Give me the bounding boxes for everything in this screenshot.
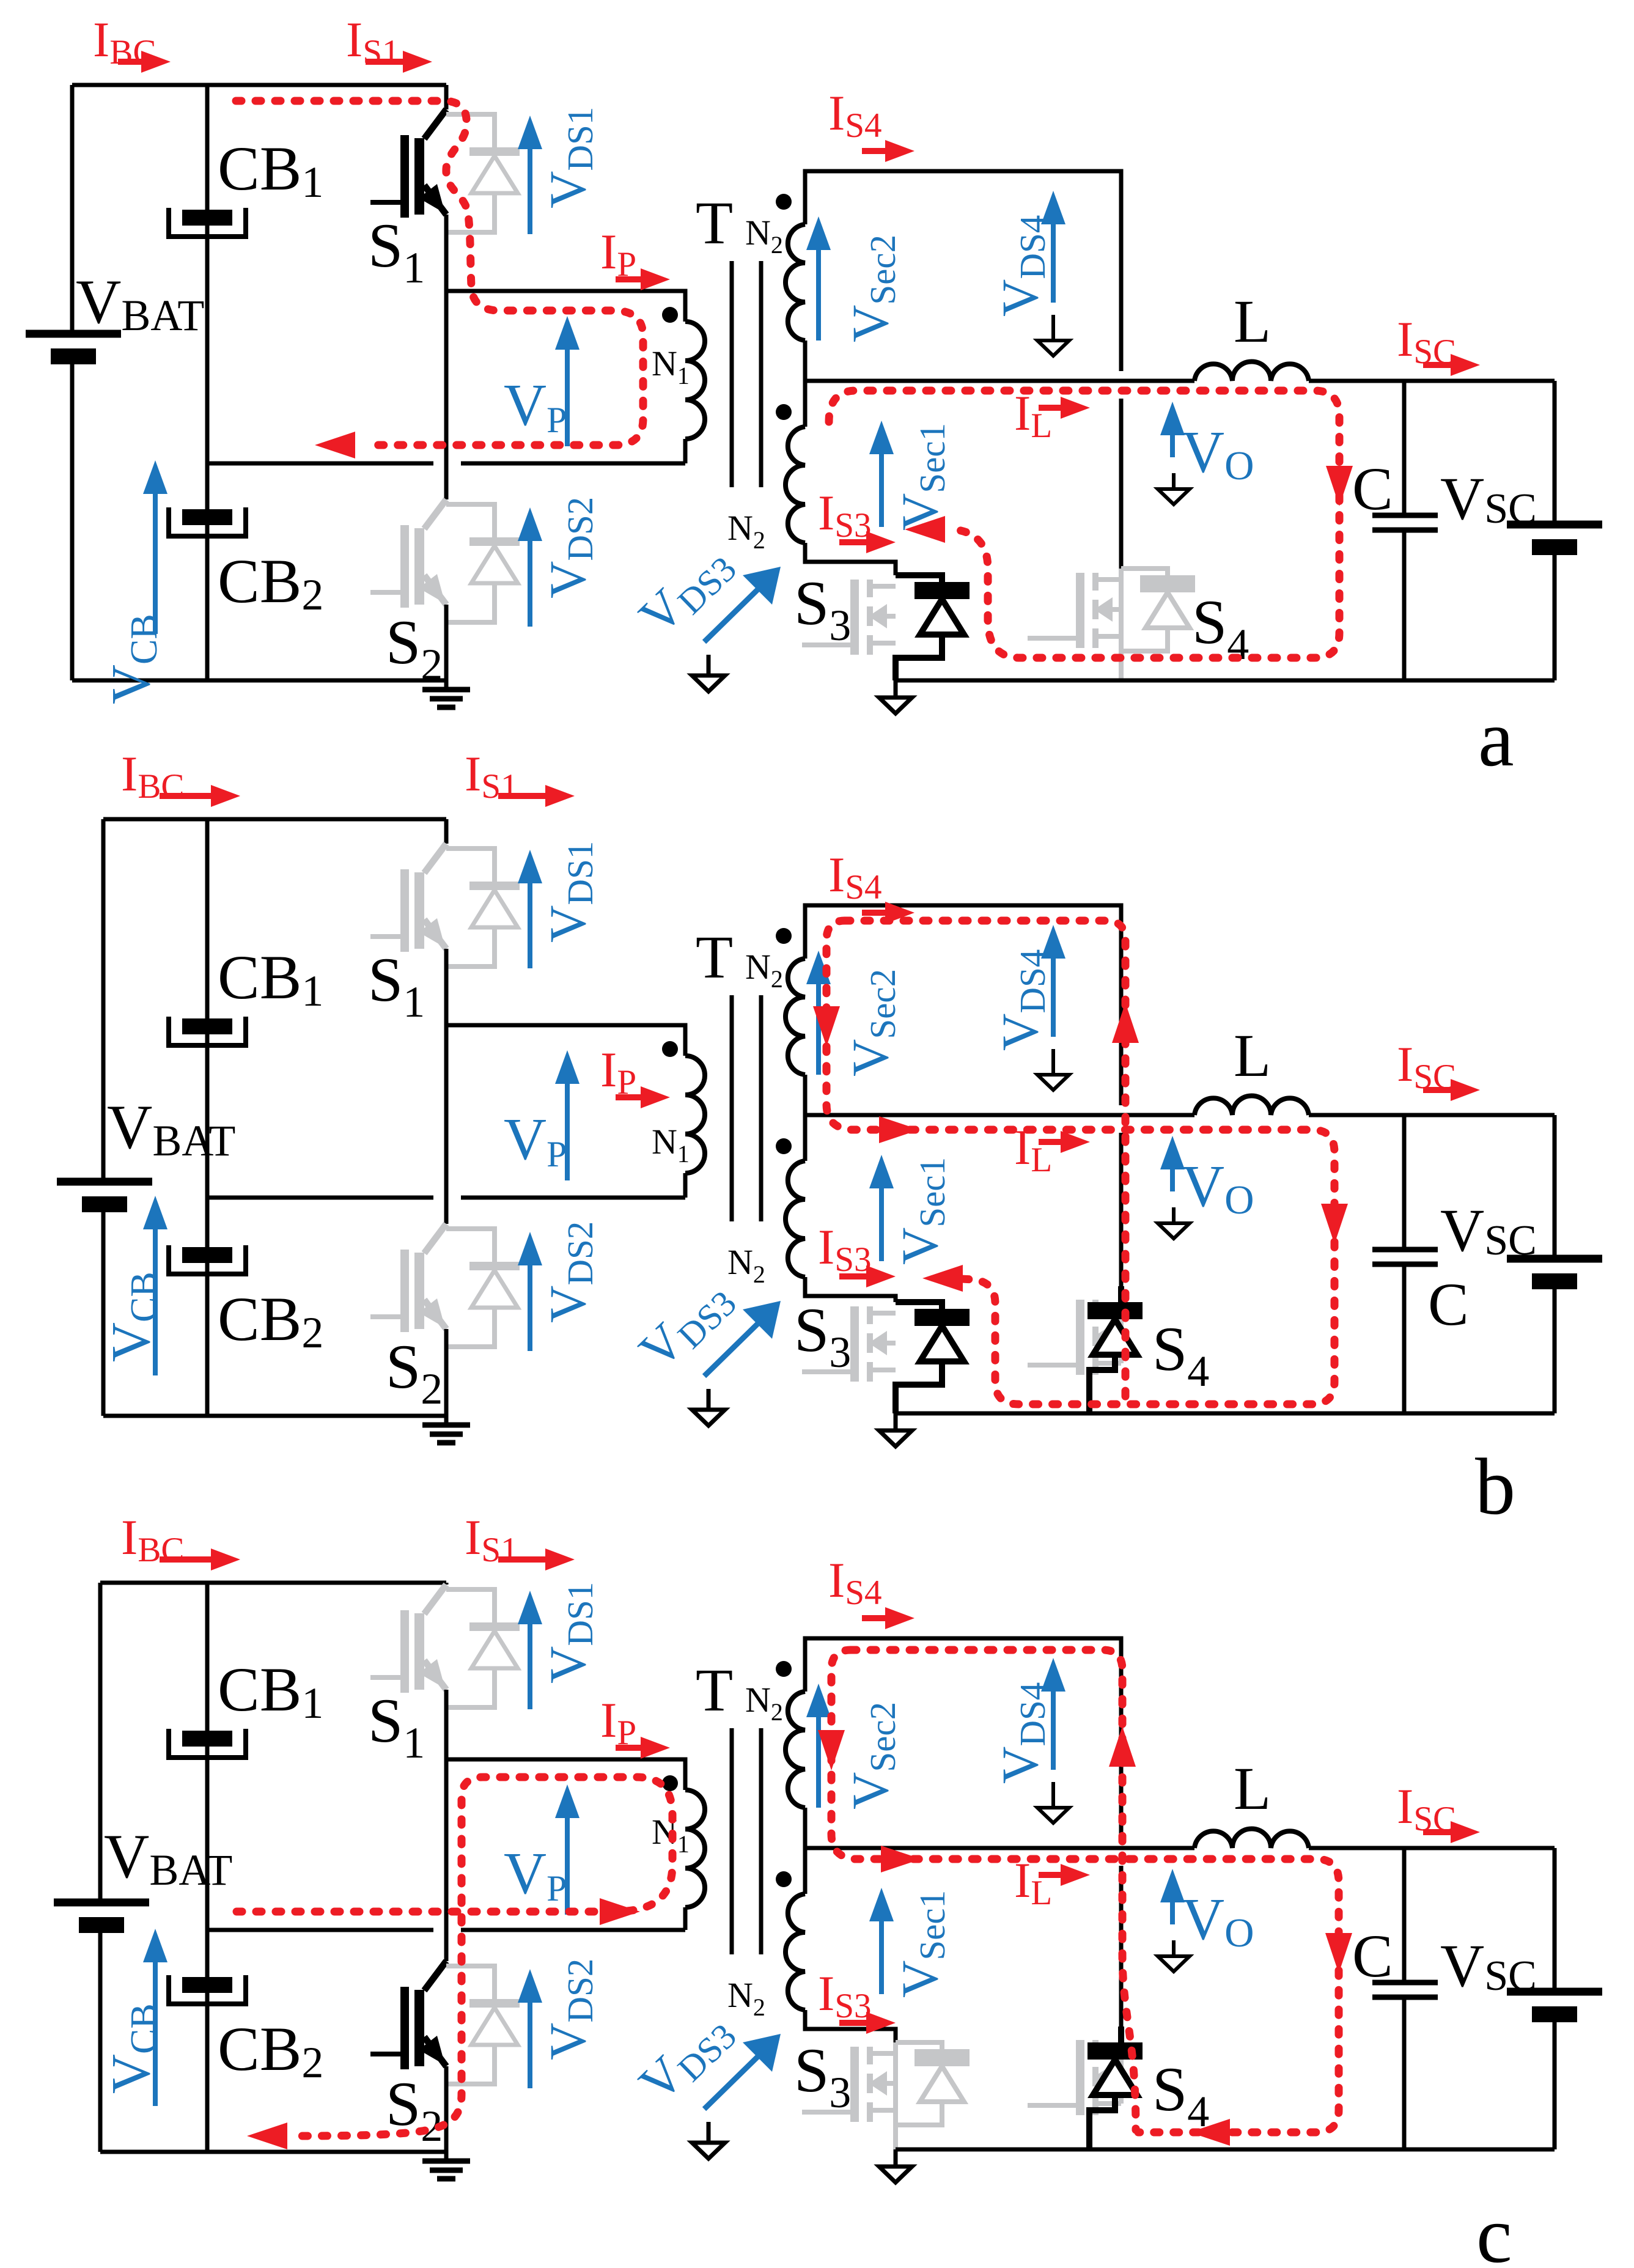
wire S4 drain (a) (1119, 399, 1124, 569)
arrow VSec1 (b) (869, 1155, 894, 1261)
winding N2 top (b) (786, 959, 805, 1161)
battery VSC (c) (1507, 1992, 1602, 2022)
label ISC (c) (1397, 1778, 1456, 1838)
label S2 (a) (386, 608, 443, 689)
arrow IL (b) (1039, 1131, 1090, 1153)
wire C branch (a) (1402, 381, 1407, 680)
inductor L (b) (1194, 1096, 1309, 1116)
arrow VP (c) (555, 1784, 580, 1915)
core (a) (732, 261, 761, 487)
label S2 (c) (386, 2069, 443, 2151)
current arrow into coil (c) (600, 1898, 640, 1925)
diode S1 body (a) (446, 114, 520, 232)
wire S1-S2 node (b) (444, 949, 449, 1224)
ref VO (c) (1158, 1940, 1190, 1972)
core (c) (732, 1728, 761, 1954)
wire VSC branch (b) (1553, 1115, 1557, 1413)
wire output rail (c) (805, 1846, 1555, 1850)
wire output rail (b) (805, 1113, 1555, 1117)
label C (c) (1352, 1922, 1393, 1990)
dot N2 bottom (c) (776, 1871, 792, 1887)
diode S3 body (a) (896, 575, 970, 680)
winding N1 (c) (685, 1790, 705, 1930)
winding N1 (b) (685, 1056, 705, 1198)
dot N1 (a) (662, 307, 678, 323)
battery VBAT (a) (26, 334, 121, 364)
label VO (a) (1182, 419, 1254, 488)
arrow VDS3 (c) (704, 2034, 781, 2109)
ground S3 (c) (879, 2149, 912, 2182)
arrow IP (c) (616, 1737, 670, 1759)
svg-text:c: c (1476, 2190, 1512, 2268)
label N1 (c) (652, 1812, 690, 1858)
label VSC (a) (1440, 465, 1537, 532)
label VO (b) (1182, 1154, 1254, 1223)
arrow ISC (a) (1423, 354, 1480, 376)
wire S2 emitter (a) (444, 605, 449, 680)
label S1 (a) (368, 211, 425, 292)
dot N2 top (b) (776, 928, 792, 944)
wire top rail (a) (72, 83, 446, 87)
current path secondary upper (b) (845, 921, 1125, 1404)
label S4 (b) (1152, 1314, 1209, 1396)
battery VSC (a) (1507, 525, 1602, 555)
label CB2 (c) (218, 2014, 323, 2087)
label IS3 (c) (818, 1965, 872, 2025)
current arrow down C (b) (1321, 1204, 1348, 1244)
wire S1 drain (a) (444, 85, 449, 109)
wire CB branch (b) (205, 819, 210, 1416)
label S3 (b) (794, 1295, 851, 1377)
svg-text:b: b (1475, 1441, 1515, 1531)
current arrow down C (a) (1326, 466, 1353, 506)
wire primary return (c) (207, 1928, 685, 1932)
dot N2 bottom (b) (776, 1138, 792, 1154)
label IS1 (c) (465, 1509, 518, 1569)
wire S1 drain (b) (444, 819, 449, 844)
label VSec1 (a) (891, 423, 952, 531)
arrow IP (b) (616, 1086, 670, 1108)
inductor L (a) (1194, 362, 1309, 381)
label subfigure a (1478, 693, 1514, 783)
diode S4 body (b) (1087, 1286, 1143, 1413)
current arrow left S3 (b) (922, 1265, 963, 1292)
capacitor CB2 (b) (169, 1245, 246, 1274)
wire bottom rail primary (a) (72, 679, 446, 683)
current path secondary lower (b) (826, 921, 1334, 1404)
label VDS3 (b) (628, 1268, 744, 1382)
label VSec1 (c) (891, 1890, 952, 1998)
ref VO (b) (1158, 1207, 1190, 1239)
label S3 (a) (794, 569, 851, 650)
label S3 (c) (794, 2036, 851, 2117)
svg-text:L: L (1234, 1754, 1271, 1822)
winding N2 top (a) (786, 224, 805, 427)
wire S1-S2 node (a) (444, 215, 449, 499)
diode S2 body (a) (446, 504, 520, 622)
label VDS3 (a) (628, 534, 744, 648)
label VSC (b) (1440, 1196, 1537, 1264)
label ISC (a) (1397, 311, 1456, 371)
wire S4 drain (b) (1119, 1133, 1124, 1295)
transistor S3 (a) (802, 580, 896, 655)
current arrow into S3 (a) (905, 516, 945, 543)
wire S4 drain (c) (1119, 1866, 1124, 2036)
label VCB (a) (101, 614, 165, 704)
dot N2 bottom (a) (776, 404, 792, 420)
label S1 (c) (368, 1686, 425, 1767)
wire left branch (a) (70, 85, 75, 680)
transistor S3 (b) (802, 1306, 896, 1382)
current path secondary (a) (829, 391, 1339, 658)
wire primary return (b) (207, 1196, 685, 1200)
label IS3 (b) (818, 1219, 872, 1279)
current arrow up S4 (c) (1109, 1726, 1136, 1767)
battery VSC (b) (1507, 1259, 1602, 1289)
label VCB (b) (101, 1272, 165, 1362)
transistor S1 (c) (370, 1585, 446, 1693)
diode S1 body (c) (446, 1589, 520, 1707)
battery VBAT (c) (54, 1902, 149, 1933)
arrow IS3 (c) (839, 2012, 896, 2034)
wire secondary bottom rail (b) (896, 1412, 1555, 1416)
label VDS3 (c) (628, 2001, 744, 2115)
label VP (b) (504, 1106, 567, 1174)
arrow VDS2 (b) (518, 1232, 542, 1351)
label VCB (c) (101, 2003, 165, 2094)
label S4 (c) (1152, 2055, 1209, 2136)
label VDS4 (a) (992, 215, 1053, 317)
current path primary (c) (237, 1777, 672, 2136)
current path primary (a) (236, 101, 643, 445)
label VBAT (a) (76, 267, 204, 340)
current arrow left bottom (c) (1190, 2119, 1230, 2146)
label VDS1 (a) (539, 107, 600, 208)
label ISC (b) (1397, 1036, 1456, 1096)
arrow IBC (a) (118, 51, 171, 73)
ground VDS3 (c) (692, 2122, 725, 2159)
transistor S1 (a) (370, 109, 446, 218)
label VSec2 (a) (842, 235, 903, 342)
wire S1-S2 node (c) (444, 1690, 449, 1961)
label S4 (a) (1192, 587, 1249, 669)
wire top rail (b) (103, 817, 446, 822)
arrow VDS4 (b) (1041, 925, 1065, 1037)
arrow IS3 (b) (839, 1265, 896, 1287)
arrow VDS3 (a) (704, 567, 781, 642)
label VBAT (b) (107, 1092, 235, 1165)
label N2 bottom (b) (727, 1242, 765, 1288)
current arrow primary return (a) (315, 432, 355, 458)
wire S2 emitter (c) (444, 2066, 449, 2152)
arrow IS3 (a) (839, 531, 896, 553)
arrow IP (a) (616, 268, 670, 290)
arrow IS1 (a) (366, 51, 432, 73)
wire output rail (a) (805, 379, 1555, 383)
transistor S2 (b) (370, 1224, 446, 1332)
transistor S4 (a) (1028, 569, 1195, 680)
svg-text:L: L (1234, 1022, 1271, 1089)
current arrow primary return (c) (247, 2123, 287, 2149)
label S2 (b) (386, 1332, 443, 1413)
label VO (c) (1182, 1887, 1254, 1956)
label CB1 (a) (218, 134, 323, 207)
transistor S2 (c) (370, 1961, 446, 2069)
ref VDS4 (c) (1037, 1782, 1069, 1823)
arrow VCB (b) (143, 1196, 167, 1375)
label N1 (a) (652, 344, 690, 389)
svg-text:T: T (696, 189, 733, 257)
wire top rail (c) (100, 1581, 446, 1585)
wire C branch (b) (1402, 1115, 1407, 1413)
wire bottom rail primary (c) (100, 2150, 446, 2154)
label L (a) (1234, 287, 1271, 355)
arrow VDS3 (b) (704, 1301, 781, 1376)
label CB1 (b) (218, 943, 323, 1015)
wire secondary top rail (a) (805, 171, 1121, 371)
arrow VSec2 (a) (806, 216, 831, 341)
dot N2 top (a) (776, 194, 792, 210)
label VDS1 (c) (539, 1582, 600, 1684)
wire C branch (c) (1402, 1848, 1407, 2149)
arrow IS1 (b) (498, 785, 575, 807)
label T (b) (696, 923, 733, 991)
arrow VDS4 (a) (1041, 191, 1065, 303)
arrow IS4 (c) (862, 1607, 915, 1629)
capacitor CB1 (b) (169, 1017, 246, 1045)
arrow IS4 (a) (862, 140, 915, 162)
svg-text:T: T (696, 1656, 733, 1724)
arrow VO (b) (1160, 1136, 1185, 1191)
label VDS2 (c) (539, 1959, 600, 2060)
label VBAT (c) (104, 1822, 232, 1894)
winding N2 bottom (b) (786, 1161, 896, 1302)
dot N1 (c) (662, 1775, 678, 1791)
label IBC (c) (121, 1509, 184, 1569)
current path secondary lower (c) (831, 1650, 1339, 2132)
winding N2 top (c) (786, 1692, 805, 1894)
current arrow down N2top (b) (813, 1006, 840, 1047)
arrow VP (a) (555, 316, 580, 446)
label IP (c) (600, 1692, 636, 1752)
arrow IBC (c) (160, 1548, 240, 1570)
label C (b) (1428, 1270, 1469, 1338)
svg-text:a: a (1478, 693, 1514, 783)
label CB2 (b) (218, 1284, 323, 1357)
wire primary top (a) (446, 291, 685, 322)
label IP (b) (600, 1042, 636, 1102)
wire primary return (a) (207, 462, 685, 466)
label C (a) (1352, 455, 1393, 523)
capacitor CB2 (c) (169, 1975, 246, 2004)
winding N2 bottom (a) (786, 427, 896, 575)
battery VBAT (b) (57, 1182, 152, 1212)
wire CB branch (c) (205, 1583, 210, 2152)
diode S4 body (c) (1087, 2027, 1143, 2149)
dot N1 (b) (662, 1041, 678, 1057)
ref VO (a) (1158, 473, 1190, 504)
capacitor C (a) (1372, 515, 1438, 530)
label L (b) (1234, 1022, 1271, 1089)
ground VDS3 (a) (692, 655, 725, 691)
label VP (c) (504, 1841, 567, 1909)
arrow VO (a) (1160, 402, 1185, 457)
diode S2 body (b) (446, 1229, 520, 1347)
arrow VDS2 (c) (518, 1969, 542, 2088)
arrow VP (b) (555, 1050, 580, 1180)
label VSC (c) (1440, 1932, 1537, 2000)
label N2 top (b) (745, 947, 783, 993)
ground S2 (b) (422, 1416, 470, 1443)
label IBC (a) (93, 12, 156, 72)
ground S2 (a) (422, 680, 470, 707)
wire secondary top rail (c) (805, 1638, 1121, 1838)
svg-text:C: C (1352, 455, 1393, 523)
label N2 bottom (c) (727, 1975, 765, 2021)
arrow ISC (c) (1423, 1821, 1480, 1843)
diode S1 body (b) (446, 849, 520, 966)
arrow VSec1 (a) (869, 421, 894, 527)
label IL (a) (1014, 385, 1052, 445)
wire left branch (b) (101, 819, 106, 1416)
arrow IS1 (c) (498, 1548, 575, 1570)
arrow IL (c) (1039, 1864, 1090, 1886)
label CB1 (c) (218, 1655, 323, 1728)
label IS3 (a) (818, 485, 872, 545)
capacitor C (c) (1372, 1983, 1438, 1997)
label IP (a) (600, 224, 636, 284)
label CB2 (a) (218, 547, 323, 619)
label IS4 (a) (828, 85, 882, 145)
svg-text:C: C (1428, 1270, 1469, 1338)
label IS4 (b) (828, 847, 882, 907)
winding N1 (a) (685, 322, 705, 463)
wire secondary bottom rail (c) (896, 2148, 1555, 2152)
arrow VSec2 (b) (806, 951, 831, 1075)
label IS1 (b) (465, 746, 518, 806)
wire left branch (c) (98, 1583, 103, 2152)
label N2 bottom (a) (727, 508, 765, 554)
capacitor CB1 (a) (169, 208, 246, 237)
inductor L (c) (1194, 1829, 1309, 1849)
arrow IL (a) (1039, 397, 1090, 419)
transistor S3 (c) (802, 2042, 970, 2149)
current arrow right IL (b) (879, 1116, 919, 1143)
label T (c) (696, 1656, 733, 1724)
label VDS4 (b) (992, 949, 1053, 1051)
label VSec2 (b) (842, 969, 903, 1077)
label T (a) (696, 189, 733, 257)
capacitor C (b) (1372, 1250, 1438, 1264)
label subfigure c (1476, 2190, 1512, 2268)
wire S1 drain (c) (444, 1583, 449, 1585)
label VDS4 (c) (992, 1682, 1053, 1784)
transistor S4 (b) (1028, 1295, 1121, 1375)
wire secondary bottom rail (a) (896, 679, 1555, 683)
wire bottom rail primary (b) (103, 1414, 446, 1418)
arrow IBC (b) (160, 785, 240, 807)
arrow VDS2 (a) (518, 507, 542, 627)
winding N2 bottom (c) (786, 1894, 896, 2042)
core (b) (732, 995, 761, 1221)
arrow VCB (a) (143, 460, 167, 634)
arrow VDS1 (a) (518, 116, 542, 234)
label IL (c) (1014, 1852, 1052, 1912)
label IS1 (a) (346, 12, 400, 72)
label IL (b) (1014, 1119, 1052, 1179)
arrow ISC (b) (1423, 1079, 1480, 1101)
arrow VSec2 (c) (806, 1684, 831, 1808)
wire CB branch (a) (205, 85, 210, 680)
arrow VCB (c) (143, 1929, 167, 2106)
ground S2 (c) (422, 2152, 470, 2179)
label VSec1 (b) (891, 1157, 952, 1265)
label N2 top (c) (745, 1680, 783, 1726)
ref VDS4 (b) (1037, 1049, 1069, 1090)
label VP (a) (504, 372, 567, 440)
arrow VSec1 (c) (869, 1888, 894, 1994)
arrow VDS1 (c) (518, 1591, 542, 1709)
arrow VDS1 (b) (518, 850, 542, 968)
current arrow up S4 (b) (1112, 1003, 1139, 1043)
label L (c) (1234, 1754, 1271, 1822)
ground S3 (a) (879, 680, 912, 713)
label N1 (b) (652, 1122, 690, 1168)
diode S2 body (c) (446, 1966, 520, 2084)
arrow IS4 (b) (862, 902, 915, 924)
current arrow down N2top (c) (818, 1730, 845, 1770)
svg-text:T: T (696, 923, 733, 991)
wire primary top (c) (446, 1759, 685, 1790)
ground VDS3 (b) (692, 1389, 725, 1426)
label VDS2 (a) (539, 497, 600, 598)
arrow VDS4 (c) (1041, 1658, 1065, 1770)
svg-text:C: C (1352, 1922, 1393, 1990)
label VDS1 (b) (539, 841, 600, 943)
label N2 top (a) (745, 213, 783, 259)
wire VSC branch (a) (1553, 381, 1557, 680)
wire primary top (b) (446, 1025, 685, 1056)
arrow VO (c) (1160, 1869, 1185, 1924)
wire S2 emitter (b) (444, 1329, 449, 1416)
current arrow right IL (c) (881, 1846, 921, 1872)
label VDS2 (b) (539, 1221, 600, 1323)
current arrow down C (c) (1325, 1933, 1352, 1973)
ground S3 (b) (879, 1413, 912, 1446)
label subfigure b (1475, 1441, 1515, 1531)
ref VDS4 (a) (1037, 315, 1069, 356)
transistor S1 (b) (370, 844, 446, 952)
capacitor CB1 (c) (169, 1729, 246, 1758)
label IS4 (c) (828, 1552, 882, 1612)
current path secondary upper (c) (851, 1650, 1136, 2130)
label S1 (b) (368, 945, 425, 1026)
wire VSC branch (c) (1553, 1848, 1557, 2149)
capacitor CB2 (a) (169, 507, 246, 536)
svg-text:L: L (1234, 287, 1271, 355)
diode S3 body (b) (896, 1302, 970, 1413)
transistor S4 (c) (1028, 2036, 1121, 2115)
transistor S2 (a) (370, 499, 446, 608)
dot N2 top (c) (776, 1661, 792, 1677)
label VSec2 (c) (842, 1702, 903, 1810)
wire secondary top rail (b) (805, 905, 1121, 1105)
label IBC (b) (121, 746, 184, 806)
